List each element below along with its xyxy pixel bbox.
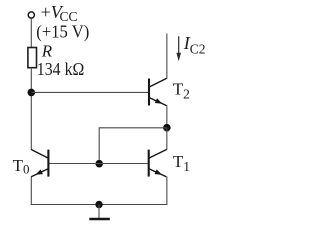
svg-text:IC2: IC2 — [183, 33, 206, 57]
node T2 emitter / T1 collector — [163, 124, 171, 132]
svg-text:(+15 V): (+15 V) — [36, 22, 89, 42]
wire resistor to T0 collector — [30, 68, 32, 150]
node on base rail — [95, 160, 103, 168]
svg-text:T2: T2 — [173, 80, 190, 102]
wire bottom rail — [31, 204, 167, 206]
wire node left and down to base rail — [99, 128, 167, 164]
transistor T2 — [149, 78, 167, 105]
node ground junction — [95, 201, 102, 208]
wire base rail T0 to T1 — [48, 163, 148, 165]
wire T2 collector up (IC2 lead) — [166, 34, 168, 79]
svg-text:134 kΩ: 134 kΩ — [37, 59, 85, 79]
arrow IC2 — [176, 36, 181, 61]
svg-text:T1: T1 — [173, 152, 190, 174]
wire junction to T2 base — [31, 91, 148, 93]
svg-text:R: R — [41, 42, 53, 61]
wire T1 emitter down to rail — [166, 177, 168, 206]
node junction base of T2 — [28, 89, 36, 97]
wire node down to T1 collector — [166, 128, 168, 150]
wire T0 emitter down to rail — [30, 177, 32, 206]
ground — [98, 205, 100, 219]
transistor T1 — [149, 149, 167, 176]
wire T2 emitter down to node — [166, 105, 168, 128]
resistor R 134k — [28, 48, 37, 68]
terminal +VCC — [28, 12, 34, 18]
svg-text:T0: T0 — [13, 156, 30, 177]
transistor T0 — [31, 149, 48, 176]
wire terminal to resistor — [30, 19, 32, 48]
